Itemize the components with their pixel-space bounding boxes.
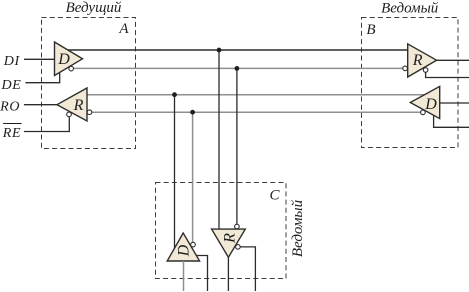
- svg-text:R: R: [221, 233, 238, 244]
- svg-text:B: B: [366, 22, 375, 38]
- svg-text:D: D: [57, 51, 70, 68]
- svg-text:DE: DE: [0, 78, 21, 93]
- svg-text:Ведомый: Ведомый: [290, 199, 306, 257]
- wire RE (A): [24, 117, 69, 132]
- bus line 1 (A output of driver A to receivers): [67, 49, 408, 51]
- junction dot on line 1: [217, 48, 222, 53]
- svg-text:RE: RE: [2, 126, 22, 141]
- enable bubble (receiver C): [236, 245, 241, 250]
- wire DI (C): [183, 261, 185, 291]
- branch wire line3 to driver C output: [174, 95, 176, 249]
- wire RO (A): [24, 104, 57, 106]
- wire DI (B): [440, 102, 469, 104]
- inverted output bubble (driver C): [191, 242, 196, 247]
- svg-text:A: A: [118, 21, 129, 37]
- wire RE (C): [240, 247, 255, 291]
- branch wire line1 to receiver C input: [218, 50, 220, 229]
- enclosure B (Ведомый) dashed box: [362, 18, 459, 148]
- enable bubble (receiver A): [67, 112, 72, 117]
- enable bubble (receiver B): [423, 68, 428, 73]
- wire RO (C): [227, 257, 229, 292]
- overline of RE (A): [3, 123, 22, 125]
- wire DE (B): [434, 116, 469, 128]
- inverting input bubble (receiver C): [235, 224, 240, 229]
- svg-text:C: C: [269, 187, 280, 203]
- branch wire line2 to receiver C inverting input: [236, 68, 238, 224]
- wire DE (C): [197, 256, 208, 292]
- svg-text:Ведомый: Ведомый: [381, 0, 439, 16]
- wire DE (A): [25, 72, 59, 83]
- junction dot on line 2: [235, 66, 240, 71]
- driver D (A) triangle: [55, 42, 83, 76]
- bus line 3 (return pair line to receiver A): [87, 94, 425, 96]
- inverted output bubble (driver A): [69, 66, 74, 71]
- driver D (C) triangle: [167, 233, 199, 261]
- inverting input bubble (receiver A): [87, 110, 92, 115]
- enclosure A (Ведущий) dashed box: [42, 18, 136, 149]
- junction dot on line 3: [172, 92, 177, 97]
- wire RE (B): [426, 72, 469, 77]
- branch wire line4 to driver C inverted output: [192, 112, 194, 242]
- inverting input bubble (receiver B): [403, 66, 408, 71]
- wire RO (B): [437, 59, 469, 61]
- bus line 4 (inverted return line): [92, 111, 421, 113]
- driver D (B) triangle: [410, 86, 439, 118]
- junction dot on line 4: [190, 110, 195, 115]
- svg-text:RO: RO: [0, 100, 20, 115]
- receiver R (C) triangle: [212, 229, 246, 257]
- svg-text:R: R: [412, 52, 423, 69]
- svg-text:R: R: [73, 97, 84, 114]
- receiver R (B) triangle: [408, 44, 437, 77]
- enclosure C dashed box: [156, 183, 287, 279]
- inverted output bubble (driver B): [421, 110, 426, 115]
- bus line 2 (inverted output of driver A): [74, 67, 403, 69]
- svg-text:D: D: [175, 244, 192, 257]
- wire DI (A): [24, 58, 55, 60]
- svg-text:Ведущий: Ведущий: [66, 0, 122, 16]
- svg-text:DI: DI: [3, 54, 21, 69]
- svg-text:D: D: [424, 96, 437, 113]
- receiver R (A) triangle: [57, 88, 87, 121]
